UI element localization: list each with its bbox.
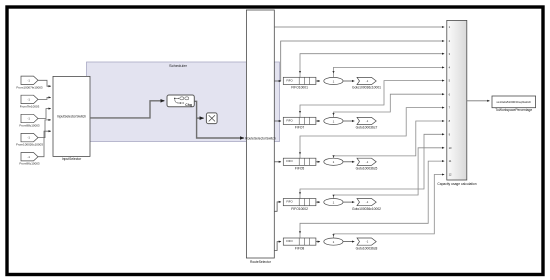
FIFO row 4 bbox=[283, 192, 381, 211]
wire row2 input bbox=[274, 120, 281, 122]
from block From96c10003 bbox=[19, 153, 40, 166]
server block (oval) bbox=[324, 199, 343, 206]
wire stat oval2 to port6 bbox=[334, 94, 445, 118]
goto block Goto100036c5 bbox=[357, 158, 376, 165]
FIFO row 1 bbox=[283, 71, 381, 90]
port numbers on capacity block bbox=[449, 25, 452, 177]
wire server to goto bbox=[343, 241, 354, 243]
svg-text:FIFO: FIFO bbox=[286, 159, 293, 163]
svg-text:From98c10003: From98c10003 bbox=[19, 124, 40, 128]
queue stat port arrow bbox=[299, 192, 301, 194]
svg-text:FIFO: FIFO bbox=[286, 200, 293, 204]
svg-text:FIFO10001: FIFO10001 bbox=[291, 86, 308, 90]
wire server to goto bbox=[343, 161, 354, 163]
wire from tag5 bbox=[38, 131, 51, 157]
subsystem area Scheduler bbox=[87, 62, 280, 142]
from block From10007fe10003 bbox=[16, 76, 43, 89]
svg-text:From100026c10003: From100026c10003 bbox=[16, 143, 43, 147]
To Workspace block bbox=[492, 96, 536, 112]
svg-text:Scheduler: Scheduler bbox=[169, 63, 188, 68]
svg-text:InputSelectorSwitch: InputSelectorSwitch bbox=[57, 114, 86, 118]
queue stat port arrow bbox=[299, 111, 301, 113]
wire from tag4 bbox=[38, 120, 51, 138]
server block (oval) bbox=[324, 238, 343, 245]
from block From7fe10003 bbox=[20, 95, 40, 108]
server block (oval) bbox=[324, 158, 343, 165]
wire queue to server bbox=[316, 80, 320, 82]
queue stat port arrow bbox=[299, 71, 301, 73]
wire row3 input bbox=[274, 161, 281, 163]
svg-text:Capacity usage calculation: Capacity usage calculation bbox=[437, 182, 476, 186]
server stat port arrow bbox=[332, 113, 334, 115]
svg-text:FIFO: FIFO bbox=[286, 78, 293, 82]
svg-text:Goto100036c10001: Goto100036c10001 bbox=[352, 86, 381, 90]
wire stat fifo2 to port5 bbox=[300, 81, 444, 118]
subsystem Capacity usage calculation bbox=[0, 0, 1, 1]
wire InputSelector to chart bbox=[90, 101, 164, 118]
FIFO row 2 bbox=[283, 111, 377, 130]
wire queue to server bbox=[316, 120, 320, 122]
FIFO row 5 bbox=[283, 231, 377, 250]
wire port2 bbox=[281, 41, 445, 81]
svg-text:InputSelector: InputSelector bbox=[62, 157, 82, 161]
from block From100026c10003 bbox=[16, 133, 43, 146]
server stat port arrow bbox=[332, 71, 334, 73]
queue stat port arrow bbox=[299, 152, 301, 154]
wire port1 bbox=[274, 26, 444, 28]
wire queue to server bbox=[316, 201, 320, 203]
wire row4 input bbox=[274, 202, 281, 211]
wire chart to RouteSelector bbox=[194, 101, 244, 138]
queue block FIFO5 bbox=[283, 158, 316, 165]
wire stat oval5 to port12 bbox=[334, 175, 445, 239]
server block (oval) bbox=[324, 77, 343, 84]
queue stat port arrow bbox=[299, 231, 301, 233]
queue block FIFO10001 bbox=[283, 77, 316, 84]
svg-text:Chg: Chg bbox=[185, 103, 192, 107]
wire stat fifo5 to port11 bbox=[300, 161, 444, 238]
svg-text:ToWorkspacePercentage: ToWorkspacePercentage bbox=[495, 108, 532, 112]
svg-text:FIFO10002: FIFO10002 bbox=[291, 207, 308, 211]
svg-text:From96c10003: From96c10003 bbox=[19, 162, 40, 166]
queue block FIFO10002 bbox=[283, 199, 316, 206]
from block From98c10003 bbox=[19, 114, 40, 127]
wire branch to terminator bbox=[197, 117, 204, 119]
server stat port arrow bbox=[332, 234, 334, 236]
wire row5 input bbox=[274, 242, 281, 251]
server block (oval) bbox=[324, 117, 343, 124]
wire row1 input bbox=[274, 80, 281, 82]
svg-text:FIFO7: FIFO7 bbox=[295, 126, 305, 130]
wire server to goto bbox=[343, 120, 354, 122]
wire from tag3 bbox=[38, 109, 51, 119]
wire stat oval3 to port8 bbox=[334, 121, 445, 159]
svg-text:FIFO: FIFO bbox=[286, 239, 293, 243]
svg-text:Goto100036c5: Goto100036c5 bbox=[356, 167, 378, 171]
goto block Goto100036c10002 bbox=[357, 199, 376, 206]
wire stat fifo4 to port9 bbox=[300, 134, 444, 198]
svg-text:ss13efa510003CapSwitch: ss13efa510003CapSwitch bbox=[496, 100, 531, 104]
svg-text:Goto100036c8: Goto100036c8 bbox=[356, 246, 378, 250]
svg-text:RouteSelector: RouteSelector bbox=[250, 260, 272, 264]
subsystem RouteSelector (tall) bbox=[246, 10, 274, 258]
server stat port arrow bbox=[332, 155, 334, 157]
wire stat oval4 to port10 bbox=[334, 148, 445, 199]
goto block Goto100036c8 bbox=[357, 238, 376, 245]
wire queue to server bbox=[316, 161, 320, 163]
queue block FIFO7 bbox=[283, 117, 316, 124]
svg-text:Goto100036c10002: Goto100036c10002 bbox=[352, 207, 381, 211]
wire from tag2 bbox=[38, 97, 51, 99]
wire stat fifo1 to port3 bbox=[300, 54, 444, 78]
wire from tag1 bbox=[38, 80, 51, 86]
chart block Chg bbox=[167, 95, 194, 107]
svg-text:RouteSelectorSwitch: RouteSelectorSwitch bbox=[245, 136, 276, 140]
svg-text:Goto100036c7: Goto100036c7 bbox=[356, 126, 378, 130]
svg-text:FIFO: FIFO bbox=[286, 118, 293, 122]
server stat port arrow bbox=[332, 195, 334, 197]
FIFO row 3 bbox=[283, 152, 377, 170]
terminator X block bbox=[206, 113, 217, 124]
goto block Goto100036c10001 bbox=[357, 77, 376, 84]
wire server to goto bbox=[343, 80, 354, 82]
subsystem InputSelector bbox=[53, 76, 90, 156]
svg-text:FIFO8: FIFO8 bbox=[295, 246, 305, 250]
goto block Goto100036c7 bbox=[357, 117, 376, 124]
wire stat fifo3 to port7 bbox=[300, 108, 444, 159]
svg-text:FIFO5: FIFO5 bbox=[295, 167, 305, 171]
wire stat oval1 to port4 bbox=[334, 67, 445, 77]
svg-text:From10007fe10003: From10007fe10003 bbox=[16, 85, 43, 89]
svg-text:From7fe10003: From7fe10003 bbox=[20, 104, 40, 108]
wire queue to server bbox=[316, 241, 320, 243]
wire server to goto bbox=[343, 201, 354, 203]
wire capacity to workspace bbox=[467, 100, 490, 102]
queue block FIFO8 bbox=[283, 238, 316, 245]
